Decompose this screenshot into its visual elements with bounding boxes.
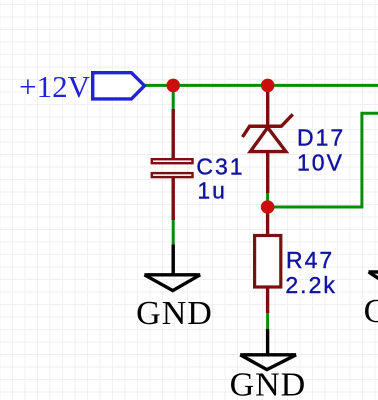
svg-text:+12V: +12V: [19, 69, 90, 104]
svg-text:GND: GND: [136, 295, 213, 332]
svg-text:R47: R47: [286, 247, 334, 273]
svg-text:D17: D17: [297, 125, 345, 151]
svg-text:GND: GND: [364, 293, 378, 330]
svg-text:C31: C31: [196, 154, 244, 180]
svg-text:10V: 10V: [297, 149, 344, 175]
svg-text:GND: GND: [230, 367, 307, 400]
svg-text:1u: 1u: [197, 178, 227, 204]
svg-text:2.2k: 2.2k: [285, 272, 336, 298]
